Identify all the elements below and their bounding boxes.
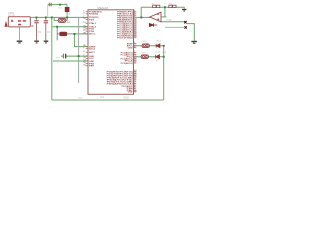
wire cap C1 lower pin [35, 23, 37, 40]
junction LED2 to ground return [163, 56, 165, 58]
no-connect X2 [184, 26, 186, 28]
LED2 [156, 55, 160, 59]
svg-text:MEGA8: MEGA8 [97, 6, 108, 10]
svg-text:5: 5 [134, 46, 135, 48]
IC1 left pin stubs [86, 12, 88, 66]
svg-text:25: 25 [83, 33, 85, 35]
svg-text:AVCC: AVCC [89, 33, 96, 36]
svg-text:PD0(RXD): PD0(RXD) [89, 14, 98, 16]
junction C5 to left loop [78, 55, 80, 57]
svg-text:28: 28 [134, 36, 136, 38]
wire cap C2 lower pin [45, 23, 47, 40]
wire to right ground [187, 24, 194, 41]
ground far right [191, 41, 197, 43]
wire led row 1 [134, 45, 164, 47]
ground under C2 [44, 40, 49, 42]
junction R1 bottom on VCC rail [66, 17, 68, 19]
resistor R2 [153, 5, 156, 7]
no-connect X1 [184, 21, 186, 23]
op-amp input marks [157, 15, 159, 21]
wire opamp lower output [161, 21, 185, 23]
LED1 [156, 44, 160, 48]
wire vertical to ground gnd2 [56, 27, 58, 41]
power supply box DC1 [8, 17, 30, 27]
svg-text:GND: GND [78, 98, 83, 100]
jumper JP2 [141, 55, 148, 59]
wire avcc corner [74, 34, 88, 47]
IC1 left pin labels [89, 12, 102, 68]
inductor L1 [60, 32, 67, 35]
svg-text:19: 19 [83, 64, 85, 66]
svg-text:GND: GND [123, 97, 128, 99]
wire cap3 row [61, 55, 88, 57]
junction C1 top on VCC rail [36, 17, 38, 19]
wire cap C1 top stub [35, 17, 37, 20]
IC1 right pin numbers [134, 10, 137, 92]
wire diode net to X2 [165, 26, 184, 28]
IC1 ATmega8 box [88, 10, 134, 95]
wire bottom ground run [52, 99, 164, 101]
wire cap C2 top stub [45, 17, 47, 20]
svg-text:LED1: LED1 [156, 41, 162, 43]
resistor R1 vertical [65, 8, 69, 12]
wire resonator left stub [54, 17, 58, 20]
ground right of resistors [182, 9, 186, 11]
wire left rail vertical [51, 17, 53, 100]
svg-text:8M: 8M [67, 22, 70, 24]
svg-text:13: 13 [83, 22, 85, 24]
junction node at C4 [59, 4, 61, 6]
svg-text:GND: GND [162, 52, 167, 54]
svg-text:LED2: LED2 [155, 52, 161, 54]
wire resonator right stub [66, 12, 67, 21]
wire right vertical return [163, 46, 165, 100]
wire resistor top to box [66, 5, 68, 8]
C1 ref text [31, 25, 33, 27]
capacitor C2 [44, 20, 48, 22]
junction left rail on VCC rail [51, 17, 53, 19]
svg-text:100n: 100n [56, 57, 60, 59]
supply box contacts [11, 20, 26, 26]
wire xtal1 row [52, 26, 88, 28]
op-amp IC2A [150, 12, 161, 22]
svg-text:GND: GND [128, 48, 134, 50]
svg-text:VCC: VCC [58, 8, 63, 10]
junction ADC pin to feedback [140, 17, 142, 19]
cap C5 [62, 54, 64, 59]
wire feedback vertical [140, 7, 142, 17]
svg-text:PD1(TXD): PD1(TXD) [117, 38, 133, 40]
IC1 left pin numbers [83, 10, 85, 66]
svg-text:PC5(ADC5): PC5(ADC5) [121, 62, 133, 65]
wire inductor row [57, 33, 88, 35]
wire top cap row [48, 4, 67, 6]
svg-text:DC-IN: DC-IN [8, 14, 15, 17]
svg-text:22: 22 [83, 30, 85, 32]
wire feedback row [141, 7, 184, 9]
resistor R5 [173, 5, 176, 7]
wire opamp feedback drop [164, 7, 166, 17]
svg-text:XTAL1: XTAL1 [89, 22, 97, 25]
junction LED1 to ground return [163, 45, 165, 47]
crystal Q1 [58, 18, 66, 22]
junction XTAL1 ground branch [56, 26, 58, 28]
svg-text:IC2A: IC2A [167, 19, 172, 22]
wire led row 2 [134, 56, 164, 58]
ground under box1 [17, 40, 23, 42]
svg-text:grn: grn [156, 59, 159, 61]
junction feedback node [164, 6, 166, 8]
jumper JP1 [142, 44, 149, 48]
junction C2 top on VCC rail [45, 17, 47, 19]
svg-text:10: 10 [134, 90, 136, 92]
wire opamp inv input [161, 16, 166, 18]
IC1 right pin labels [107, 12, 135, 94]
svg-text:17: 17 [134, 62, 136, 64]
svg-text:1: 1 [83, 47, 84, 49]
svg-text:IC1: IC1 [100, 96, 104, 99]
power arrow [4, 21, 7, 27]
ground under C1 [34, 40, 39, 42]
svg-text:ADC7: ADC7 [89, 51, 96, 54]
wire gnd pin row [53, 60, 88, 62]
resistor R4 [169, 5, 172, 7]
wire adc pin to opamp [136, 16, 150, 18]
wire box1 to ground [19, 27, 21, 40]
wire vertical from top cap left [47, 5, 49, 18]
wire VCC rail top [30, 16, 88, 18]
svg-text:10: 10 [83, 18, 85, 20]
diode D1 [149, 23, 153, 26]
capacitor C4 top [49, 3, 51, 6]
junction L1 output node [74, 33, 76, 35]
svg-text:ADC6: ADC6 [89, 48, 96, 51]
wire left loop vertical [78, 17, 80, 83]
IC1 right pin stubs [134, 12, 137, 92]
resistor R3 [157, 5, 160, 7]
svg-text:GND: GND [128, 92, 134, 94]
capacitor C1 [34, 20, 38, 22]
